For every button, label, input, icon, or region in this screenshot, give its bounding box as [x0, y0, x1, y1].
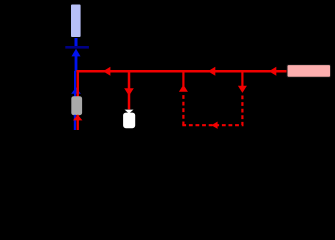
wire: red main line — [76, 70, 287, 73]
wire: blue pipe radiator to baffle — [75, 38, 78, 47]
arrow: red down on bypass right — [238, 86, 247, 93]
boiler / heat source (pink) — [287, 65, 331, 78]
wire: bypass bottom dashed — [182, 124, 243, 126]
wire: red drop from main line to pump — [76, 71, 79, 96]
wire: bypass left vertical dashed — [182, 95, 184, 125]
arrow: red up into pump bottom — [73, 115, 82, 121]
arrow: blue up below baffle — [72, 49, 81, 57]
vessel inlet funnel (white triangle) — [125, 110, 134, 114]
wire: blue pipe pump to junction — [74, 71, 76, 97]
wire: red branch down to vessel — [128, 71, 131, 109]
wire: blue stub below pump — [74, 115, 76, 130]
arrow: red left #3 — [269, 67, 276, 76]
arrow: red left #2 — [208, 67, 215, 76]
expansion vessel (white capsule) — [123, 113, 135, 129]
wire: bypass right vertical solid part — [241, 71, 243, 86]
wire: blue riser pipe — [75, 55, 78, 72]
wire: bypass left vertical solid part — [182, 71, 184, 86]
arrow: red up on bypass left — [179, 85, 188, 92]
pump (gray capsule) — [71, 96, 82, 115]
arrow: red down on vessel branch — [124, 88, 134, 96]
arrow: red left #1 — [103, 67, 110, 76]
baffle bar (navy) — [65, 46, 89, 49]
arrow: blue up at pump outlet — [71, 87, 81, 93]
arrow: red left on bypass bottom — [211, 122, 217, 129]
radiator (cold sink, light blue) — [71, 5, 81, 38]
wire: red stub below pump — [76, 115, 78, 130]
wire: bypass right vertical dashed — [241, 96, 243, 126]
